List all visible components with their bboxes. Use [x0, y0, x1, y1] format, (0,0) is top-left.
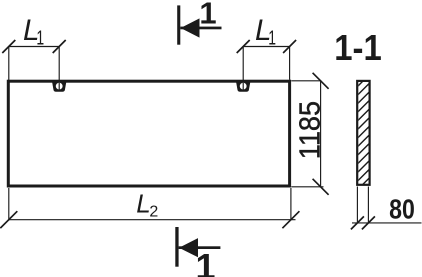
- svg-text:1: 1: [195, 246, 215, 277]
- svg-text:2: 2: [149, 204, 158, 221]
- svg-text:80: 80: [389, 195, 415, 225]
- svg-text:1: 1: [199, 0, 216, 31]
- svg-text:1: 1: [36, 26, 44, 49]
- svg-text:1-1: 1-1: [334, 29, 381, 69]
- svg-text:1185: 1185: [294, 101, 326, 159]
- svg-text:1: 1: [268, 26, 276, 49]
